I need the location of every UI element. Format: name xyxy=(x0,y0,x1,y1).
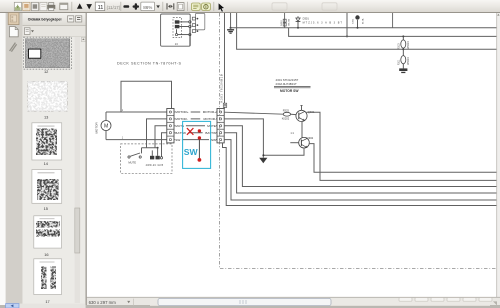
svg-text:MOTOR+: MOTOR+ xyxy=(203,110,216,114)
wire Q301 to Q302 xyxy=(301,121,303,137)
terminal box on K301 wire xyxy=(223,103,226,107)
svg-text:MUTE: MUTE xyxy=(128,160,136,164)
thumbnail 5 xyxy=(34,216,62,248)
transistor Q302 xyxy=(299,137,310,148)
wire to switch xyxy=(141,148,143,154)
zoom in xyxy=(133,5,139,7)
svg-text:R325: R325 xyxy=(283,109,290,113)
options row xyxy=(23,26,86,37)
svg-text:M: M xyxy=(104,124,108,130)
svg-text:K301 7812NB1B: K301 7812NB1B xyxy=(220,74,224,103)
wire motor to SW row xyxy=(106,139,167,141)
net labels left xyxy=(175,109,191,142)
svg-text:W1743: W1743 xyxy=(288,18,290,26)
wire R325 to Q301 xyxy=(291,113,296,115)
svg-text:630 x 297 mm: 630 x 297 mm xyxy=(89,300,117,305)
relay coil K1 xyxy=(175,20,180,23)
faint ghost icons xyxy=(272,3,287,10)
svg-text:D301: D301 xyxy=(303,17,310,21)
resistor R325 xyxy=(283,112,290,116)
wire motor+ to R325 xyxy=(224,112,283,114)
next page xyxy=(86,4,92,9)
svg-text:MTZJ5.6 3 A B 3 BT: MTZJ5.6 3 A B 3 BT xyxy=(303,21,343,24)
save icon xyxy=(14,2,21,10)
wire battw branch xyxy=(162,133,167,157)
section boundary dash-dot line xyxy=(220,13,497,269)
thumbnail 1 selected xyxy=(24,37,72,69)
svg-text:R311: R311 xyxy=(398,59,401,65)
node dot R311 top xyxy=(402,48,404,50)
svg-text:R310: R310 xyxy=(398,43,401,49)
sidebar scroll arrow xyxy=(81,37,85,41)
ground center xyxy=(259,158,267,163)
wire harness row4 xyxy=(224,133,496,193)
wire Q302 emitter to ground xyxy=(263,148,304,158)
svg-text:12: 12 xyxy=(44,69,48,74)
thumbnail 6 xyxy=(34,259,62,295)
svg-text:K0202: K0202 xyxy=(282,116,290,120)
wire bus top horizontal xyxy=(231,27,497,29)
page number box xyxy=(95,2,104,11)
toolbar icons placeholder xyxy=(14,2,337,12)
diode pack D2 xyxy=(151,150,153,155)
ground at top xyxy=(230,13,232,28)
svg-text:13: 13 xyxy=(175,42,178,46)
sign icon xyxy=(202,3,211,10)
svg-text:16: 16 xyxy=(44,252,48,257)
wire motor top lead xyxy=(105,112,107,121)
pages tab (active) xyxy=(8,13,19,25)
wire K301 vertical xyxy=(224,13,226,109)
wire Q302 right to bus xyxy=(309,144,497,173)
statusbar placeholder xyxy=(89,14,500,306)
svg-text:11: 11 xyxy=(98,5,104,11)
wires between connectors xyxy=(174,111,217,113)
transistor Q301 xyxy=(296,110,307,121)
svg-text:BATTW: BATTW xyxy=(175,131,186,135)
svg-text:230A 9H74B31T: 230A 9H74B31T xyxy=(276,82,297,86)
node dot xyxy=(346,35,348,37)
view mode buttons xyxy=(399,298,492,302)
red node dot B xyxy=(198,136,201,139)
comment icon xyxy=(191,3,200,10)
svg-text:SW: SW xyxy=(184,147,199,157)
zoom box xyxy=(141,2,155,11)
annotations placeholder xyxy=(183,121,211,168)
resistor R311 xyxy=(402,49,404,55)
horizontal scrollbar xyxy=(150,298,490,306)
capacitor C301 xyxy=(357,20,359,28)
panel header xyxy=(23,13,86,26)
red node dot A xyxy=(198,129,201,132)
wire motor+ row xyxy=(106,111,167,113)
net labels right xyxy=(200,109,216,142)
bookmarks tab icon xyxy=(9,27,18,37)
wire mute box bus xyxy=(142,147,158,149)
ground below R311 xyxy=(399,68,407,71)
svg-text:86%: 86% xyxy=(143,5,152,10)
wire pins bus xyxy=(189,28,191,46)
node dots right of header xyxy=(197,18,199,20)
svg-text:N303: N303 xyxy=(281,20,283,26)
wire harness row3 xyxy=(224,126,496,187)
pin circles xyxy=(189,21,191,23)
power unit box xyxy=(284,13,286,28)
window icon xyxy=(60,3,68,10)
wire harness row5 xyxy=(224,140,496,200)
switch SW1 MUTE xyxy=(128,156,130,158)
relay contact xyxy=(175,34,177,36)
svg-text:SW: SW xyxy=(175,138,180,142)
print-to-paper icon xyxy=(23,2,30,10)
red X marker xyxy=(187,128,194,135)
relay unit inner box xyxy=(195,13,204,29)
fit page icon xyxy=(177,3,184,11)
separator xyxy=(120,2,122,11)
schematic placeholder xyxy=(95,13,497,269)
svg-text:MUTE: MUTE xyxy=(207,124,216,128)
svg-text:W4223: W4223 xyxy=(407,57,410,65)
separator xyxy=(162,2,164,11)
relay coil dashed box xyxy=(173,18,182,38)
vertical scrollbar arrow xyxy=(497,14,499,16)
thumbnail 4 xyxy=(32,170,62,204)
node dot xyxy=(157,147,159,149)
sidebar placeholder xyxy=(6,13,86,308)
resistor R310 xyxy=(402,36,404,40)
highlight box annotation xyxy=(183,121,211,168)
zener diode D301 xyxy=(297,16,299,28)
svg-text:MOTOR-: MOTOR- xyxy=(175,117,188,121)
attachments paperclip icon xyxy=(10,43,17,52)
sidebar scrollbar xyxy=(75,37,80,303)
svg-text:Oldalak bélyegképei: Oldalak bélyegképei xyxy=(28,17,62,21)
svg-text:SW: SW xyxy=(211,138,216,142)
separator xyxy=(187,2,189,11)
pin header P1 xyxy=(192,17,195,20)
node dot ground junction xyxy=(262,154,264,156)
wire coil to pins xyxy=(179,21,188,23)
relay unit box xyxy=(161,14,191,46)
svg-text:C301: C301 xyxy=(353,18,355,24)
status bar xyxy=(87,297,500,308)
separator xyxy=(213,2,215,11)
fit width icon xyxy=(166,3,168,9)
svg-text:1:1: 1:1 xyxy=(290,132,294,135)
select arrow tool xyxy=(218,3,224,12)
wire Q302 base xyxy=(290,142,298,144)
separator xyxy=(71,2,73,11)
svg-text:MOTOR: MOTOR xyxy=(95,122,99,134)
svg-text:15: 15 xyxy=(44,206,48,211)
red node dot C xyxy=(198,158,202,162)
wire from top to lower bus xyxy=(237,13,497,49)
motor M1 xyxy=(101,121,111,131)
zoom out xyxy=(123,5,129,8)
wire motor bottom lead xyxy=(105,130,107,139)
svg-text:13: 13 xyxy=(44,114,48,119)
sidebar bottom h-scrollbar xyxy=(6,304,86,308)
svg-text:EL7A: EL7A xyxy=(361,18,364,24)
wire Q301 collector right xyxy=(306,112,496,180)
wire Q301 stub up xyxy=(301,105,303,110)
blank doc icon xyxy=(40,2,47,10)
wire bus y36 xyxy=(289,28,497,37)
prev page xyxy=(77,3,83,8)
svg-text:W4223: W4223 xyxy=(407,41,410,49)
svg-text:(11/17): (11/17) xyxy=(107,5,121,10)
wire motor- branch xyxy=(147,119,167,148)
thumbnail 3 xyxy=(32,123,62,160)
svg-text:MOTOR+: MOTOR+ xyxy=(175,110,188,114)
wire loop over connector xyxy=(121,81,172,112)
wire mute branch xyxy=(155,126,167,148)
svg-text:MOTOR SW: MOTOR SW xyxy=(280,89,299,93)
svg-text:4WD-2C GN5: 4WD-2C GN5 xyxy=(146,164,164,167)
connector J2 right xyxy=(217,109,224,143)
svg-text:Q302: Q302 xyxy=(306,136,313,140)
svg-text:17: 17 xyxy=(45,299,49,304)
connector pins W303 xyxy=(283,19,286,22)
node dot R310 top xyxy=(402,35,404,37)
annotation line xyxy=(198,138,200,160)
mute unit dashed box xyxy=(121,144,172,173)
thumbnail 2 xyxy=(28,81,68,111)
email icon xyxy=(31,2,38,10)
svg-text:DECK SECTION TN-7870HT-S: DECK SECTION TN-7870HT-S xyxy=(117,61,182,65)
connector J1 left xyxy=(167,109,174,143)
printer icon xyxy=(49,3,54,6)
wire stub x347 xyxy=(346,13,348,36)
svg-text:MOTOR-: MOTOR- xyxy=(204,117,217,121)
wire harness row2 xyxy=(224,119,263,155)
wire harness from connector bottom xyxy=(223,143,497,206)
